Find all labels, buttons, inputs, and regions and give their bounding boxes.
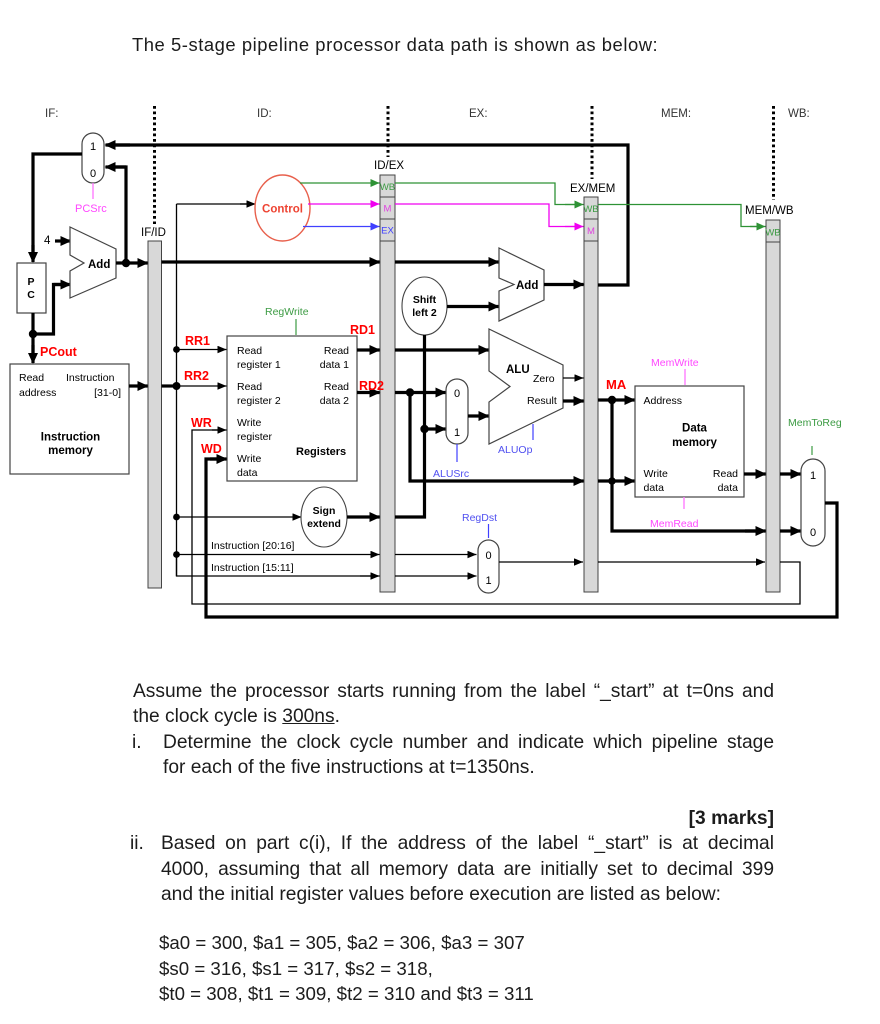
svg-text:RegWrite: RegWrite — [265, 306, 309, 318]
svg-text:EX: EX — [381, 226, 394, 237]
data memory box — [635, 386, 744, 497]
svg-text:data: data — [718, 482, 739, 494]
wire: sign extend line up to shift left 2 and ALUSrc mux 1 — [395, 335, 425, 517]
svg-text:0: 0 — [90, 168, 96, 180]
svg-text:0: 0 — [810, 527, 816, 539]
wire: ALU result to EX/MEM — [563, 399, 584, 402]
wire: shift left 2 to branch Add — [447, 305, 499, 308]
wire: RegDst mux output to EX/MEM — [499, 561, 583, 563]
mux ALUSrc — [446, 379, 468, 444]
wire: control M to ID/EX (magenta) — [308, 203, 380, 205]
stage separator dotted line EX/MEM — [591, 106, 594, 179]
svg-text:M: M — [384, 204, 392, 215]
svg-text:Data: Data — [682, 423, 708, 435]
svg-text:IF:: IF: — [45, 108, 58, 120]
svg-text:0: 0 — [454, 388, 460, 400]
shift left 2 ellipse — [402, 277, 447, 335]
svg-text:Shift: Shift — [413, 294, 437, 306]
stage separator dotted line MEM/WB — [772, 106, 775, 200]
wire: branch target feedback from EX/MEM to PC mux input 1 — [107, 145, 628, 285]
svg-text:data 2: data 2 — [320, 395, 349, 407]
svg-text:WB: WB — [765, 228, 780, 239]
svg-text:PCSrc: PCSrc — [75, 203, 107, 215]
control unit ellipse — [255, 175, 310, 241]
svg-text:RR2: RR2 — [184, 369, 209, 383]
svg-text:1: 1 — [454, 427, 460, 439]
svg-text:ALUOp: ALUOp — [498, 444, 533, 456]
sign extend ellipse — [301, 487, 347, 547]
label RegDst — [488, 524, 490, 538]
svg-text:data: data — [644, 482, 665, 494]
instruction bus vertical — [176, 204, 178, 576]
svg-text:ALUSrc: ALUSrc — [433, 468, 469, 480]
label ALUSrc — [456, 444, 458, 462]
svg-text:PCout: PCout — [40, 345, 78, 359]
wire: ALU result EX/MEM to data memory address — [598, 398, 635, 401]
registers box — [227, 336, 357, 481]
svg-text:data: data — [237, 467, 258, 479]
svg-text:Read: Read — [237, 381, 262, 393]
wire: read data to MEM/WB — [744, 472, 766, 475]
svg-text:ID/EX: ID/EX — [374, 160, 404, 172]
wire: M ID/EX to EX/MEM (magenta) — [395, 204, 581, 227]
register PC — [17, 263, 46, 313]
wire: RD2 down to EX/MEM write data — [410, 393, 581, 482]
wire: Zero to EX/MEM — [563, 377, 584, 379]
svg-text:0: 0 — [485, 550, 491, 562]
wire: PC to instruction memory read address and Add — [31, 313, 34, 357]
wire: ALUSrc mux output to ALU — [468, 414, 489, 417]
wire: sign extend input — [177, 516, 302, 518]
wire: WB EX/MEM to MEM/WB (green) — [598, 205, 763, 227]
svg-text:left 2: left 2 — [412, 307, 437, 319]
label ALUOp — [532, 424, 534, 440]
svg-text:C: C — [27, 289, 35, 301]
wire: RegDst number EX/MEM to MEM/WB — [598, 561, 765, 563]
svg-text:Instruction [20:16]: Instruction [20:16] — [211, 540, 295, 552]
svg-text:WB: WB — [380, 182, 395, 193]
wire: RR2 read register 2 — [177, 385, 227, 387]
svg-text:RD2: RD2 — [359, 379, 384, 393]
PCSrc label — [92, 183, 94, 199]
wire: instruction 15:11 ID/EX to RegDst mux 1 — [395, 575, 477, 577]
stage separator dotted line IF/ID — [153, 106, 156, 224]
wire: write data EX/MEM to data memory — [598, 479, 635, 482]
wire: instruction [15:11] to ID/EX — [177, 555, 379, 577]
svg-text:Write: Write — [237, 453, 261, 465]
svg-text:1: 1 — [810, 470, 816, 482]
svg-text:WB: WB — [583, 204, 598, 215]
svg-text:MemWrite: MemWrite — [651, 357, 699, 369]
wire: RD2 ID/EX to ALUSrc mux 0 — [395, 391, 446, 394]
svg-text:Instruction: Instruction — [66, 372, 115, 384]
ALU — [489, 329, 563, 444]
svg-text:WR: WR — [191, 416, 212, 430]
svg-text:Add: Add — [516, 280, 538, 292]
junction Add output — [122, 259, 130, 267]
pipeline register EX/MEM — [570, 183, 615, 592]
svg-text:1: 1 — [485, 575, 491, 587]
svg-text:Read: Read — [19, 372, 44, 384]
svg-text:register: register — [237, 431, 273, 443]
svg-text:Instruction: Instruction — [41, 432, 100, 444]
svg-text:Write: Write — [237, 417, 261, 429]
svg-text:Read: Read — [237, 345, 262, 357]
svg-text:Address: Address — [644, 395, 683, 407]
mux PCSrc (IF stage) — [82, 133, 104, 183]
adder Add (branch, EX stage) — [499, 248, 544, 321]
svg-text:4: 4 — [44, 235, 51, 247]
svg-text:RD1: RD1 — [350, 323, 375, 337]
svg-text:Read: Read — [324, 381, 349, 393]
wire: instruction [20:16] to ID/EX — [177, 554, 380, 556]
svg-text:data 1: data 1 — [320, 359, 349, 371]
svg-text:EX/MEM: EX/MEM — [570, 183, 615, 195]
wire: instruction 20:16 ID/EX to RegDst mux 0 — [395, 554, 477, 556]
junction PC output — [29, 330, 37, 338]
svg-text:RR1: RR1 — [185, 334, 210, 348]
wire: control WB to ID/EX (green) — [300, 182, 380, 184]
svg-text:M: M — [587, 226, 595, 237]
adder Add (PC+4, IF stage) — [70, 227, 116, 298]
wire: instruction memory output to IF/ID — [129, 384, 148, 387]
svg-text:address: address — [19, 387, 56, 399]
wire: PCSrc mux output to PC — [33, 154, 82, 259]
DIAGRAM SVG — [0, 0, 880, 668]
title text — [132, 32, 658, 57]
wire: PC+4 from ID/EX to branch Add — [395, 260, 499, 263]
svg-text:Read: Read — [713, 468, 738, 480]
svg-text:Registers: Registers — [296, 446, 346, 458]
wire: RD1 ID/EX to ALU — [395, 348, 489, 351]
svg-text:ALU: ALU — [506, 364, 530, 376]
svg-text:Write: Write — [644, 468, 668, 480]
instruction memory box — [10, 364, 129, 474]
svg-text:EX:: EX: — [469, 108, 488, 120]
stage separator dotted line ID/EX — [387, 106, 390, 157]
svg-text:Control: Control — [262, 204, 303, 216]
bottom text block — [133, 679, 774, 704]
svg-text:extend: extend — [307, 518, 341, 530]
svg-text:Result: Result — [527, 395, 557, 407]
svg-text:Read: Read — [324, 345, 349, 357]
mux RegDst — [478, 540, 499, 593]
wire: RR1 read register 1 — [177, 349, 227, 351]
svg-text:ID:: ID: — [257, 108, 272, 120]
wire: PC+4 to PCSrc mux input 0 — [109, 167, 126, 263]
svg-text:MEM/WB: MEM/WB — [745, 205, 794, 217]
svg-text:P: P — [27, 276, 34, 288]
wire: sign extend output to ID/EX — [347, 515, 380, 518]
svg-text:MEM:: MEM: — [661, 108, 691, 120]
svg-text:MA: MA — [606, 377, 627, 392]
wire: read data MEM/WB to mux 1 — [780, 472, 801, 475]
svg-text:Sign: Sign — [313, 505, 336, 517]
svg-text:register 1: register 1 — [237, 359, 281, 371]
svg-text:Zero: Zero — [533, 373, 555, 385]
wire: WB ID/EX to EX/MEM (green) — [395, 183, 581, 205]
wire: PC+4 from IF/ID to ID/EX — [162, 260, 380, 263]
wire: instruction bus from IF/ID — [162, 384, 177, 387]
wire: RD1 registers to ID/EX — [357, 348, 380, 351]
wire: branch Add output to EX/MEM — [544, 283, 584, 286]
svg-text:1: 1 — [90, 141, 96, 153]
svg-text:MemToReg: MemToReg — [788, 417, 842, 429]
svg-text:WD: WD — [201, 442, 222, 456]
wire: RD2 registers to ID/EX — [357, 391, 380, 394]
wire: write-back data mux output to registers write data — [206, 459, 837, 617]
svg-text:MemRead: MemRead — [650, 518, 699, 530]
svg-text:memory: memory — [48, 445, 93, 457]
pipeline register IF/ID — [141, 227, 166, 588]
svg-text:register 2: register 2 — [237, 395, 281, 407]
pipeline register MEM/WB — [745, 205, 794, 592]
svg-text:Add: Add — [88, 259, 110, 271]
svg-text:memory: memory — [672, 437, 717, 449]
svg-text:RegDst: RegDst — [462, 512, 497, 524]
wire: write register number MEM/WB to registers write register — [192, 430, 800, 604]
svg-text:[31-0]: [31-0] — [94, 387, 121, 399]
wire: control input — [177, 203, 254, 205]
wire: Add output to IF/ID and branch to mux 0 — [116, 261, 148, 264]
mux MemToReg — [801, 459, 825, 546]
svg-text:WB:: WB: — [788, 108, 810, 120]
wire: control EX to ID/EX (blue) — [303, 226, 380, 228]
svg-text:IF/ID: IF/ID — [141, 227, 166, 239]
svg-text:Instruction [15:11]: Instruction [15:11] — [211, 562, 294, 574]
pipeline register ID/EX — [374, 160, 404, 592]
wire: ALU result MEM/WB to mux 0 — [780, 529, 801, 532]
wire: ALU result down around data memory to MEM/WB — [612, 400, 763, 531]
